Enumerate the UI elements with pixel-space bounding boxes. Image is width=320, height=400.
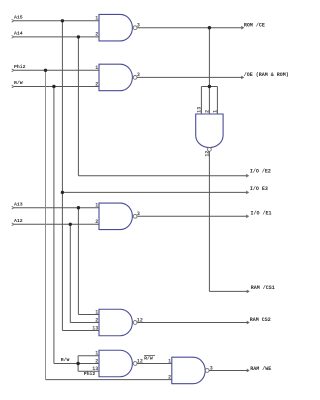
- wire Phi2 bus vertical: [45, 70, 47, 379]
- junction ROM/CE: [208, 26, 211, 29]
- svg-text:2: 2: [95, 32, 98, 38]
- wire U2 pin2 vertical: [208, 87, 210, 115]
- connector A14: [12, 36, 14, 39]
- svg-text:RAM /WE: RAM /WE: [250, 366, 271, 372]
- svg-text:2: 2: [168, 374, 171, 380]
- junction A15: [61, 19, 64, 22]
- svg-text:A13: A13: [14, 201, 23, 207]
- bubble: [133, 26, 137, 30]
- wire gate5 branch down: [77, 364, 79, 372]
- wire A14: [13, 36, 99, 38]
- wire U2 output vertical: [208, 151, 210, 291]
- bubble: [208, 148, 212, 152]
- wire RAM CS2: [137, 322, 249, 324]
- nand gate U5 (R/W inverter): [99, 350, 132, 377]
- svg-text:1: 1: [168, 358, 171, 364]
- wire R/W to gate5 pin2: [54, 363, 99, 365]
- svg-text:2: 2: [95, 317, 98, 323]
- bubble: [133, 362, 137, 366]
- svg-text:A14: A14: [14, 31, 23, 37]
- connector RAM CS2: [247, 321, 249, 324]
- connector A15: [12, 19, 14, 22]
- wire I/O /E1: [137, 215, 248, 217]
- junction A14: [77, 35, 80, 38]
- svg-text:3: 3: [137, 72, 140, 78]
- svg-text:2: 2: [95, 81, 98, 87]
- svg-text:13: 13: [92, 325, 98, 331]
- svg-text:12: 12: [137, 358, 143, 364]
- connector I/O /E1: [246, 215, 248, 218]
- wire U2 pin13 vertical: [200, 87, 202, 115]
- svg-text:2: 2: [205, 110, 211, 113]
- svg-text:RAM /CS1: RAM /CS1: [251, 285, 275, 291]
- wire I/O /E2: [78, 175, 248, 177]
- svg-text:R/W: R/W: [144, 356, 153, 362]
- wire R/W: [13, 86, 99, 88]
- nand gate U1A (A15,A14 -> ROM /CE): [99, 14, 132, 41]
- wire ROM/CE to U2 vertical: [208, 28, 210, 87]
- svg-text:I/O /E2: I/O /E2: [250, 169, 271, 175]
- junction I/O E3: [61, 191, 64, 194]
- svg-text:1: 1: [95, 203, 98, 209]
- wire A14 bus vertical: [77, 37, 79, 176]
- svg-text:Phi2: Phi2: [14, 64, 26, 70]
- connector RAM /CS1: [247, 290, 249, 293]
- connector I/O E3: [246, 191, 248, 194]
- svg-text:3: 3: [210, 365, 213, 371]
- svg-text:3: 3: [137, 211, 140, 217]
- connector RAM /WE: [247, 369, 249, 372]
- svg-text:1: 1: [95, 16, 98, 22]
- svg-text:A12: A12: [14, 218, 23, 224]
- svg-text:RAM CS2: RAM CS2: [250, 317, 271, 323]
- junction gate5 R/W: [76, 362, 79, 365]
- svg-text:1: 1: [213, 110, 219, 113]
- bubble: [133, 214, 137, 218]
- bubble: [205, 369, 209, 373]
- wire A15: [13, 20, 99, 22]
- bubble: [133, 321, 137, 325]
- svg-text:I/O /E1: I/O /E1: [251, 210, 272, 216]
- connector Phi2: [12, 69, 14, 72]
- svg-text:2: 2: [95, 358, 98, 364]
- wire RAM /CS1: [209, 290, 249, 292]
- wire ROM /CE: [137, 27, 243, 29]
- connector A12: [12, 223, 14, 226]
- connector ROM /CE: [241, 26, 243, 29]
- wire gate5 pin13 branch: [78, 370, 99, 372]
- wire gate4 pin2 from A12: [70, 322, 99, 324]
- wire A13 vertical: [77, 208, 79, 315]
- connector A13: [12, 206, 14, 209]
- svg-text:R/W: R/W: [61, 357, 70, 363]
- wire A15 bus vertical: [61, 21, 63, 331]
- wire U2 pin1 vertical: [216, 87, 218, 115]
- connector /OE: [241, 76, 243, 79]
- nand gate U4 (A15,A12,A13 -> RAM CS2): [99, 309, 132, 336]
- connector R/W: [12, 85, 14, 88]
- wire gate5 pin1 branch: [78, 355, 99, 357]
- svg-text:3: 3: [137, 23, 140, 29]
- nand gate U6 (R/W-bar,Phi2 -> RAM /WE): [172, 357, 205, 384]
- wire A12: [13, 223, 99, 225]
- nand gate U3 (A13,A12 -> I/O /E1): [99, 203, 132, 230]
- wire gate4 pin13 from A15: [62, 330, 99, 332]
- svg-text:2: 2: [95, 219, 98, 225]
- svg-text:13: 13: [92, 366, 98, 372]
- junction A12: [69, 223, 72, 226]
- wire gate5 out to gate6 pin1: [137, 363, 172, 365]
- wire Phi2: [13, 69, 99, 71]
- svg-text:A15: A15: [14, 15, 23, 21]
- junction Phi2: [44, 69, 47, 72]
- svg-text:12: 12: [137, 317, 143, 323]
- svg-text:1: 1: [95, 351, 98, 357]
- wire tie-bar U2 inputs: [201, 86, 217, 88]
- wire I/O E3: [62, 191, 248, 193]
- svg-text:1: 1: [95, 65, 98, 71]
- overline of R/W-bar: [144, 355, 155, 357]
- svg-text:13: 13: [197, 107, 203, 113]
- wire A12 vertical: [69, 224, 71, 322]
- svg-text:I/O E3: I/O E3: [250, 186, 268, 192]
- svg-text:ROM /CE: ROM /CE: [244, 22, 265, 28]
- svg-text:1: 1: [95, 309, 98, 315]
- wire RAM /WE: [209, 369, 249, 371]
- nand gate U2 vertical (inverter -> RAM /CS1): [196, 114, 223, 148]
- svg-text:R/W: R/W: [14, 80, 23, 86]
- wire gate4 pin1 from A13: [78, 314, 99, 316]
- junction A13: [77, 206, 80, 209]
- nand gate U1B (Phi2,R/W -> /OE): [99, 64, 132, 91]
- wire /OE (RAM & ROM): [137, 76, 243, 78]
- wire A13: [13, 207, 99, 209]
- wire Phi2 to gate6 pin2: [46, 379, 172, 381]
- svg-text:12: 12: [205, 151, 211, 157]
- wire R/W bus vertical: [53, 87, 55, 364]
- junction U2 tie-bar: [208, 85, 211, 88]
- bubble: [133, 76, 137, 80]
- wire gate5 branch up: [77, 356, 79, 364]
- connector I/O /E2: [246, 174, 248, 177]
- junction R/W: [52, 85, 55, 88]
- svg-text:/OE (RAM & ROM): /OE (RAM & ROM): [244, 72, 289, 78]
